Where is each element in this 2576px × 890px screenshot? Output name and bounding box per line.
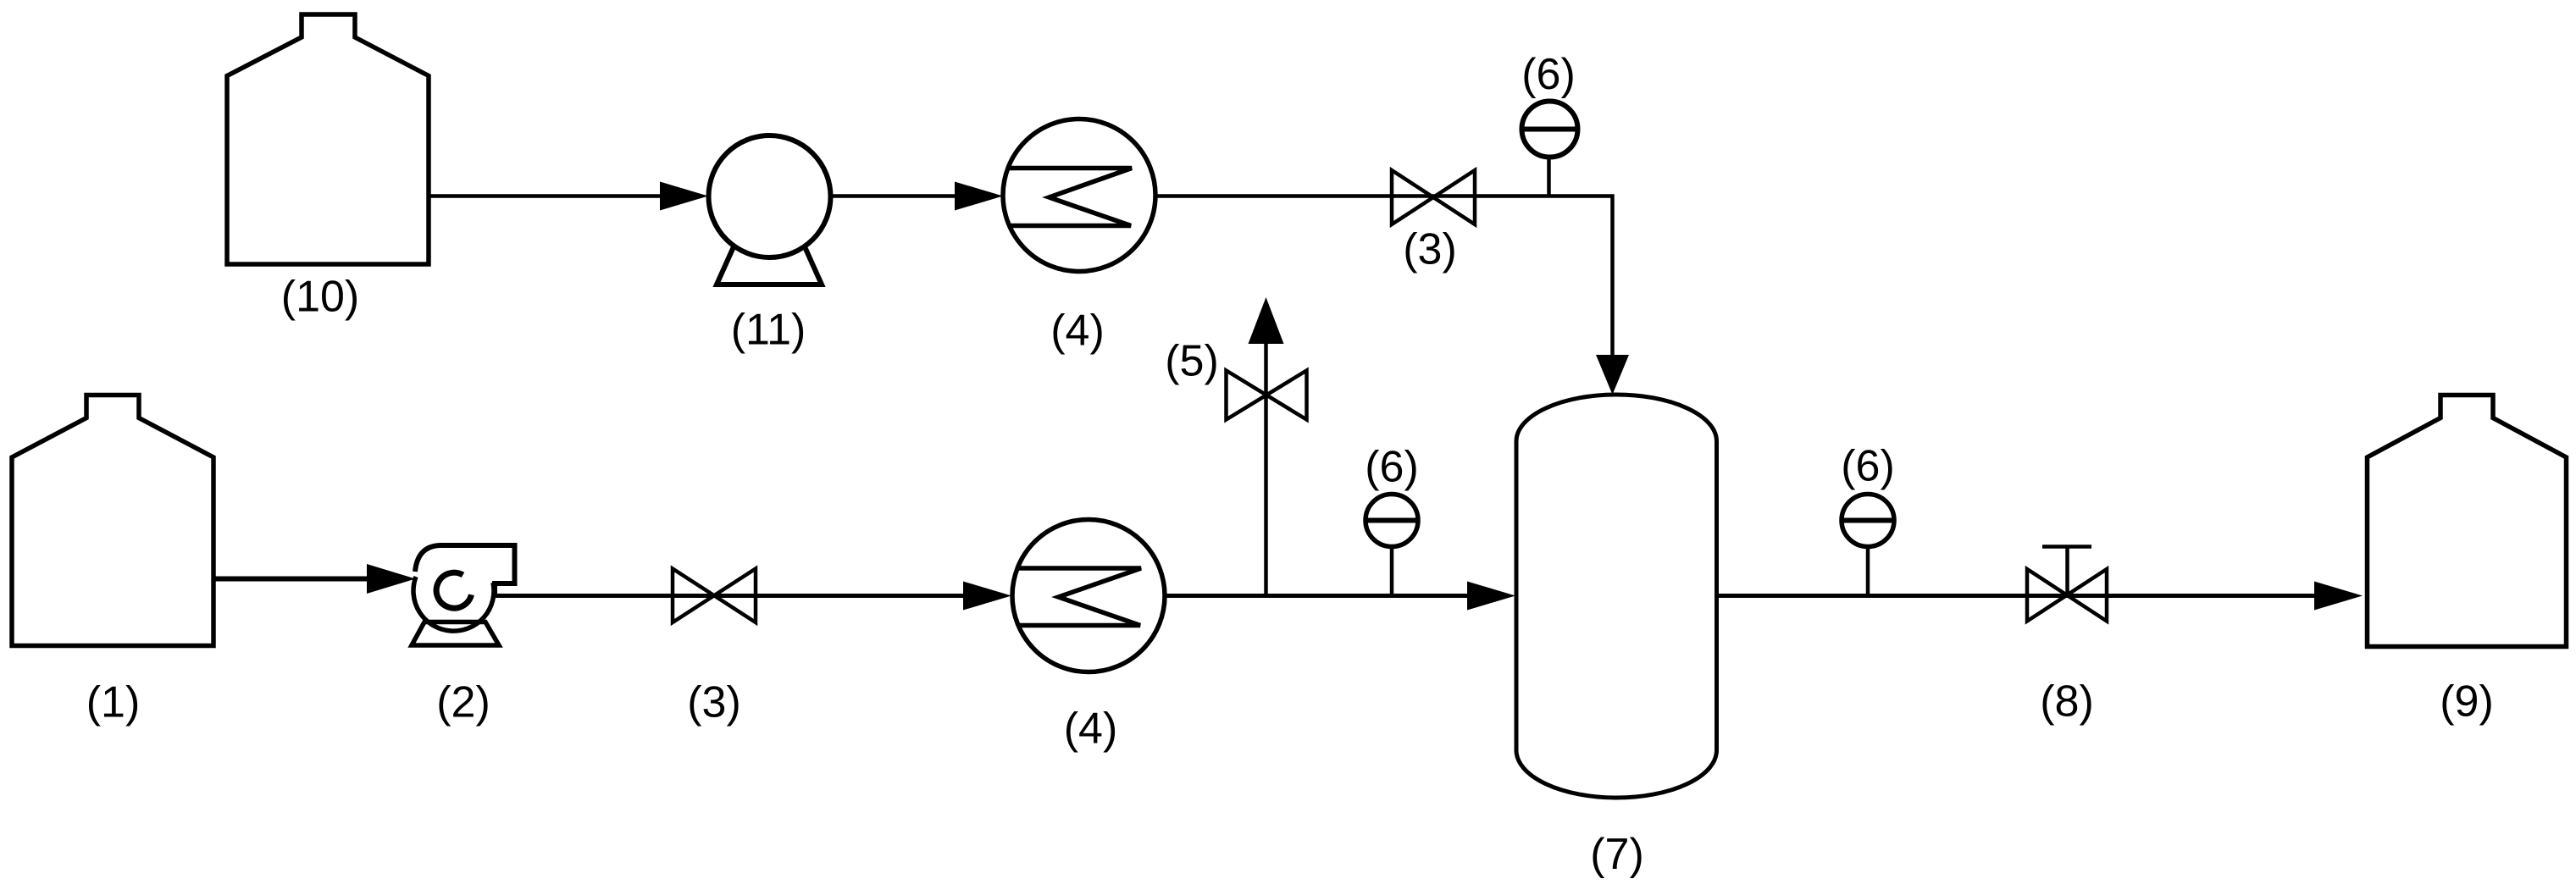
svg-text:(6): (6): [1521, 50, 1576, 99]
branch riser to valve5: [1264, 344, 1268, 596]
arrow into HX4 top: [955, 182, 1003, 211]
sensor (6) top inner line: [1522, 127, 1578, 132]
svg-text:(6): (6): [1841, 442, 1895, 491]
pipe HX4 bottom to vessel: [1165, 594, 1470, 598]
valve (8) stem: [2065, 547, 2069, 595]
valve (3) bottom: [673, 569, 756, 623]
valve (3) top: [1392, 170, 1475, 224]
svg-text:(10): (10): [281, 273, 359, 322]
svg-text:(9): (9): [2440, 677, 2494, 727]
sensor (6) right body: [1842, 495, 1894, 547]
vessel (7): [1516, 395, 1717, 798]
pump (2) volute casing: [415, 545, 515, 596]
sensor (6) middle stem: [1390, 533, 1394, 596]
pipe pump11 to HX4 top: [831, 194, 958, 198]
tank (9): [2368, 395, 2567, 647]
pump (2) impeller: [436, 572, 471, 608]
sensor (6) top stem: [1547, 144, 1551, 196]
arrow into tank9: [2314, 582, 2363, 611]
pipe pump2 to HX4 bottom: [495, 594, 966, 598]
arrow into HX4 bottom: [963, 582, 1011, 611]
arrow up vent: [1249, 297, 1284, 344]
svg-text:(8): (8): [2040, 677, 2094, 727]
pump (11) base: [717, 247, 822, 285]
valve (5): [1227, 371, 1307, 420]
arrow into pump11: [660, 182, 708, 211]
pump (2) casing circle arc: [413, 577, 494, 631]
sensor (6) middle inner line: [1366, 518, 1418, 523]
heat exchanger (4) top body: [1003, 119, 1155, 272]
arrow into vessel left: [1467, 582, 1515, 611]
svg-text:(3): (3): [1403, 225, 1457, 274]
heat exchanger (4) top coil: [1008, 169, 1132, 226]
svg-text:(5): (5): [1165, 337, 1219, 386]
pipe vessel to tank9: [1717, 594, 2318, 598]
svg-text:(4): (4): [1064, 705, 1118, 754]
arrow into vessel top: [1596, 355, 1629, 395]
svg-text:(6): (6): [1365, 443, 1419, 492]
arrow into pump2: [367, 564, 416, 594]
heat exchanger (4) bottom body: [1012, 520, 1165, 672]
heat exchanger (4) bottom coil: [1017, 568, 1141, 626]
svg-text:(1): (1): [86, 678, 141, 727]
pipe HX4 top to vessel with corner: [1155, 196, 1613, 358]
svg-text:(4): (4): [1050, 307, 1105, 356]
sensor (6) top body: [1522, 102, 1578, 158]
svg-text:(2): (2): [436, 678, 490, 727]
sensor (6) middle body: [1366, 495, 1418, 547]
pump (2) base: [412, 622, 499, 646]
valve (8) handle bar: [2042, 545, 2091, 549]
tank (10): [227, 14, 429, 264]
sensor (6) right inner line: [1842, 518, 1894, 523]
svg-text:(3): (3): [687, 678, 741, 727]
pipe tank10 to pump11: [429, 194, 662, 198]
pump (11) body: [709, 135, 831, 257]
valve (8) body: [2027, 569, 2107, 622]
svg-text:(11): (11): [731, 306, 806, 355]
pipe tank1 to pump2: [213, 577, 369, 582]
tank (1): [12, 395, 213, 646]
sensor (6) right stem: [1866, 533, 1870, 596]
svg-text:(7): (7): [1590, 830, 1644, 879]
